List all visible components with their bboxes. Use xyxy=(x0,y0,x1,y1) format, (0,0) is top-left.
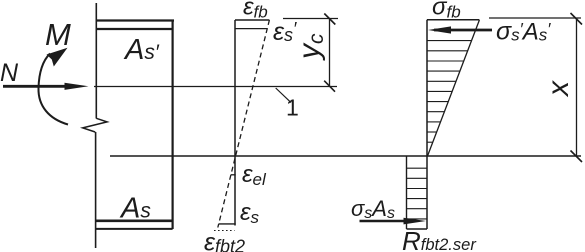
strain diagram vertical reference line xyxy=(234,20,236,226)
bottom reinforcement layer line (As level) xyxy=(96,220,173,223)
x dimension tick bottom xyxy=(571,151,583,163)
break symbol on section axis xyxy=(83,118,107,132)
sigma s As arrowhead xyxy=(404,218,427,225)
label sigma s' As' xyxy=(496,18,551,46)
label R fbt2.ser xyxy=(402,226,477,252)
label epsilon fbt2 xyxy=(204,229,245,252)
leader line for callout 1 xyxy=(276,88,291,103)
x dimension tick top xyxy=(571,13,583,25)
stress distribution slanted line xyxy=(428,20,480,156)
label yc (rotated) xyxy=(293,33,328,61)
stress diagram top fibre line (sigma fb) xyxy=(427,19,479,21)
stress diagram vertical reference line xyxy=(426,20,428,229)
label epsilon s xyxy=(240,199,260,227)
section left edge (upper part) xyxy=(95,3,97,119)
callout label 1 xyxy=(286,95,299,121)
label As xyxy=(119,193,151,225)
sigma s' As' arrow shaft xyxy=(434,29,492,32)
label sigma s As xyxy=(351,196,395,222)
svg-text:x: x xyxy=(542,80,575,98)
label epsilon fb xyxy=(243,0,268,22)
svg-text:M: M xyxy=(45,17,71,52)
sigma s As arrow shaft xyxy=(360,220,411,223)
strain line at As level (epsilon s) xyxy=(219,223,236,225)
x dimension extension line (top) xyxy=(489,17,581,19)
moment M label xyxy=(45,17,71,52)
yc dimension extension line (top) xyxy=(283,18,338,20)
centroid axis line (line 1) xyxy=(94,86,337,88)
tension stress block bottom edge xyxy=(407,228,428,230)
force N arrowhead xyxy=(65,83,89,90)
section left edge (lower part) xyxy=(95,132,97,248)
moment M arc xyxy=(38,54,68,125)
label sigma fb xyxy=(432,0,461,21)
svg-text:εfb: εfb xyxy=(243,0,268,22)
dashed strain distribution line xyxy=(218,20,270,228)
label epsilon el xyxy=(242,161,267,189)
force N label xyxy=(0,59,19,87)
strain diagram top fibre line (epsilon fb) xyxy=(235,19,269,21)
moment M arrowhead xyxy=(47,48,68,67)
tension stress block left edge xyxy=(406,157,408,230)
dotted bottom fibre strain line xyxy=(214,230,235,232)
yc dimension tick top xyxy=(324,14,335,25)
force N arrow shaft xyxy=(3,85,68,88)
strain line at As' level (epsilon s') xyxy=(235,28,267,30)
tension stress hatching xyxy=(407,168,428,219)
sigma s' As' arrowhead xyxy=(428,26,451,33)
section right edge xyxy=(172,21,174,230)
x dimension line xyxy=(576,18,578,157)
strain tick at elastic level (epsilon el) xyxy=(231,174,236,176)
yc dimension line xyxy=(329,19,331,87)
top reinforcement layer line (As' level) xyxy=(96,28,172,30)
label epsilon s' xyxy=(273,18,297,46)
svg-text:1: 1 xyxy=(286,95,299,121)
label x (rotated) xyxy=(542,80,575,98)
yc dimension tick bottom xyxy=(324,81,335,92)
section bottom edge xyxy=(96,228,173,230)
compression stress hatching xyxy=(427,41,472,143)
section top edge xyxy=(96,19,174,21)
svg-text:σfb: σfb xyxy=(432,0,461,21)
label As' xyxy=(123,34,160,66)
svg-text:N: N xyxy=(0,59,19,87)
neutral axis line xyxy=(110,155,581,157)
